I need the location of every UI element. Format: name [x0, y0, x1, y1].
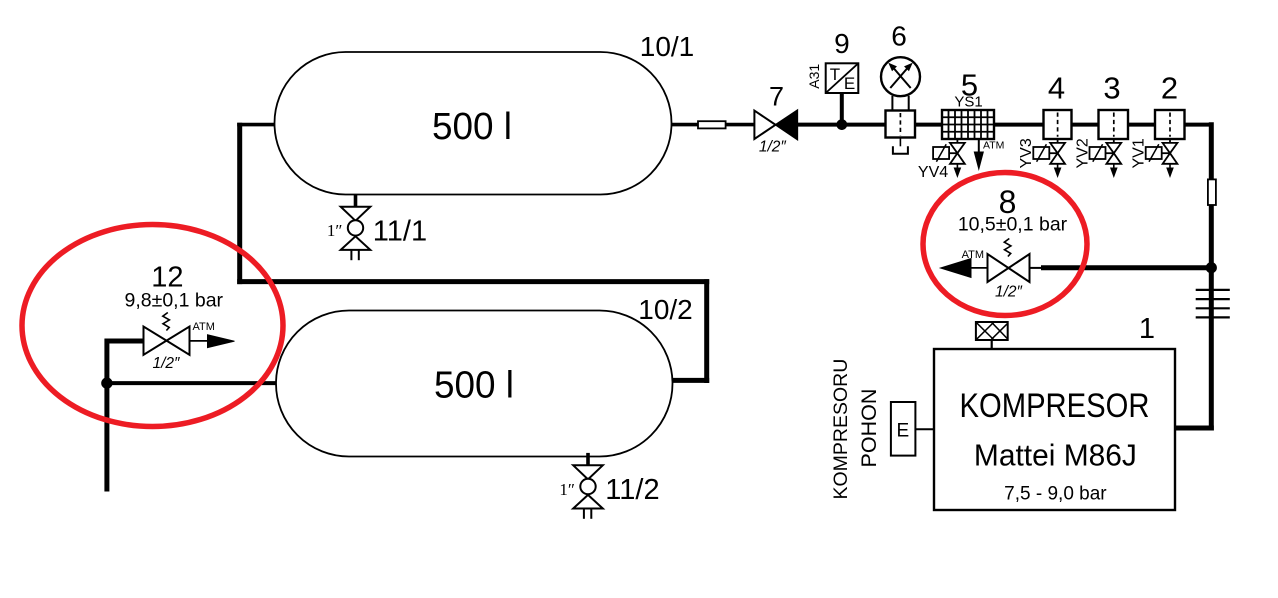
- svg-text:T: T: [830, 65, 840, 84]
- svg-text:YV2: YV2: [1074, 138, 1091, 168]
- svg-text:10/1: 10/1: [640, 31, 695, 62]
- svg-text:7: 7: [769, 81, 784, 111]
- svg-text:1/2″: 1/2″: [995, 284, 1023, 301]
- svg-text:KOMPRESORU: KOMPRESORU: [830, 359, 852, 500]
- svg-text:11/2: 11/2: [605, 474, 659, 506]
- svg-text:500 l: 500 l: [432, 106, 512, 148]
- svg-text:YV3: YV3: [1018, 138, 1035, 168]
- svg-text:1″: 1″: [327, 221, 343, 240]
- svg-text:3: 3: [1103, 71, 1120, 106]
- svg-text:A31: A31: [806, 64, 822, 89]
- svg-text:KOMPRESOR: KOMPRESOR: [960, 387, 1150, 425]
- svg-text:1″: 1″: [559, 480, 575, 499]
- svg-text:10,5±0,1 bar: 10,5±0,1 bar: [958, 214, 1068, 236]
- svg-text:7,5 - 9,0 bar: 7,5 - 9,0 bar: [1004, 484, 1107, 505]
- svg-text:E: E: [844, 74, 855, 93]
- svg-text:1/2″: 1/2″: [152, 355, 180, 372]
- svg-text:9: 9: [834, 28, 850, 59]
- svg-text:1: 1: [1139, 313, 1155, 345]
- svg-text:4: 4: [1048, 71, 1065, 106]
- svg-text:YV1: YV1: [1131, 138, 1148, 168]
- svg-text:Mattei M86J: Mattei M86J: [974, 437, 1137, 472]
- svg-text:9,8±0,1 bar: 9,8±0,1 bar: [125, 290, 224, 312]
- svg-text:10/2: 10/2: [638, 294, 693, 325]
- svg-text:1/2″: 1/2″: [759, 139, 787, 156]
- svg-text:5: 5: [961, 68, 978, 103]
- svg-text:500 l: 500 l: [434, 365, 514, 407]
- svg-text:2: 2: [1161, 71, 1178, 106]
- svg-text:ATM: ATM: [983, 140, 1004, 152]
- svg-text:E: E: [896, 421, 909, 442]
- svg-text:12: 12: [151, 261, 183, 293]
- svg-text:11/1: 11/1: [373, 215, 427, 247]
- svg-text:6: 6: [891, 21, 907, 52]
- svg-text:ATM: ATM: [193, 321, 215, 333]
- svg-text:POHON: POHON: [857, 389, 881, 468]
- svg-text:ATM: ATM: [962, 249, 984, 261]
- svg-text:YV4: YV4: [918, 164, 948, 181]
